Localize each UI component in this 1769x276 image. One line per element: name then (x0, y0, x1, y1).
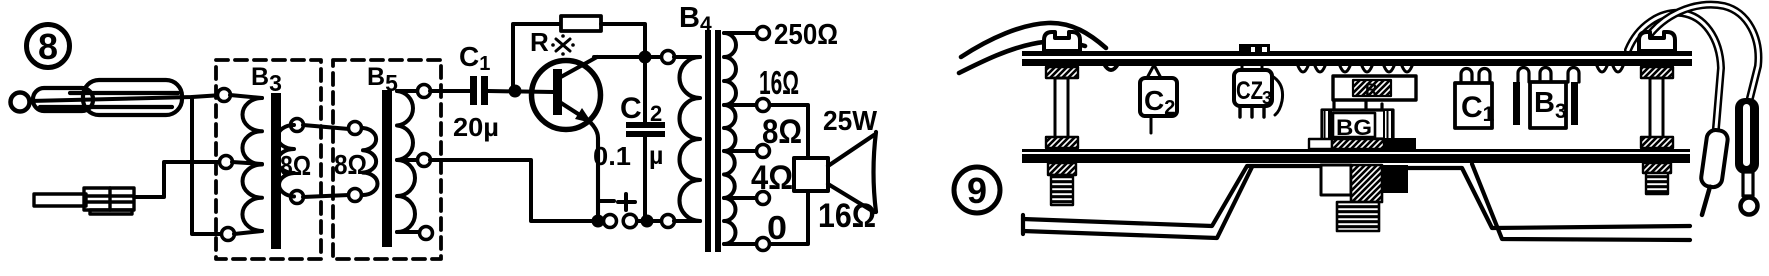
terminal: B3 secondary bottom (291, 191, 304, 204)
speaker horn (828, 135, 874, 212)
terminal: B5 secondary top (418, 85, 431, 98)
capacitor C1 (on board) (1455, 69, 1495, 129)
terminal: B3 primary middle (220, 156, 233, 169)
transformer B3 shield box (dashed) (216, 60, 321, 259)
svg-text:R: R (1365, 80, 1377, 99)
B3 secondary winding (278, 125, 295, 197)
svg-text:C: C (620, 92, 642, 125)
svg-text:8: 8 (38, 26, 58, 67)
transistor emitter lead with arrow (558, 101, 586, 119)
figure number 9 (circled) (954, 167, 1000, 213)
terminal: B3 primary top (218, 89, 231, 102)
wire collector node down to C2 (643, 57, 647, 122)
speaker LS driver (794, 158, 828, 191)
terminal: B5 primary top (349, 122, 362, 135)
transistor collector lead (559, 57, 597, 78)
mounting bracket (bent channel) (1023, 164, 1690, 240)
B5 core (382, 90, 392, 247)
transistor T1 circle (532, 61, 601, 130)
capacitor C2 (on board) (1140, 65, 1177, 133)
B4 primary winding (674, 57, 700, 221)
wire B3 to B5 top link (303, 125, 349, 129)
pin plug (small) (1696, 129, 1729, 217)
resistor R (on board) (1333, 66, 1416, 100)
wire B5 top to C1 (430, 89, 470, 93)
svg-text:8Ω: 8Ω (280, 150, 311, 181)
bottom chassis plate (1022, 149, 1690, 152)
resistor R (561, 16, 601, 31)
wire rail to B4 primary bottom (637, 219, 661, 223)
wire 16 ohm tap to speaker (770, 105, 808, 158)
microphone M (crystal mic) (11, 80, 183, 115)
wire mic to input terminal (30, 95, 222, 101)
svg-text:9: 9 (967, 170, 987, 211)
node emitter-rail junction (592, 215, 605, 228)
terminal: B4 tap 250 ohm (757, 27, 770, 40)
svg-text:µ: µ (649, 142, 663, 170)
plug with ring terminal (large) (1735, 98, 1759, 215)
B3 primary winding (230, 95, 262, 234)
wire B5 middle tap to emitter rail (430, 160, 602, 221)
wire 0 tap to speaker (770, 191, 808, 244)
hookup wire pair top right (to plugs) (1628, 5, 1758, 128)
B4 core (705, 30, 711, 252)
wire mic ground branch down (192, 97, 221, 234)
electrolytic capacitor C3 terminals (604, 215, 617, 228)
svg-text:C1: C1 (459, 41, 490, 75)
terminal: B4 tap 0 (757, 238, 770, 251)
svg-text:3: 3 (1262, 88, 1272, 108)
power transistor BG (1309, 110, 1416, 151)
wire collector to B4 primary top (594, 55, 661, 59)
transistor BG leads (1334, 100, 1382, 110)
svg-text:B3: B3 (251, 63, 282, 96)
transformer B5 shield box (dashed) (333, 60, 441, 259)
terminal: B4 primary top (662, 51, 675, 64)
terminal: B4 tap 4 ohm (757, 192, 770, 205)
svg-text:16Ω: 16Ω (759, 64, 799, 101)
polarity plus (618, 194, 635, 210)
wire R to collector node (601, 24, 645, 55)
figure number 8 (circled) (27, 25, 70, 68)
wire plug to middle terminal (134, 162, 220, 197)
node C2-rail junction (641, 215, 654, 228)
terminal: B5 secondary bottom (420, 227, 433, 240)
terminal: B4 tap 8 ohm (757, 145, 770, 158)
svg-text:8Ω: 8Ω (762, 113, 802, 151)
terminal: B3 primary bottom (222, 228, 235, 241)
terminal: B3 secondary top (291, 119, 304, 132)
svg-text:BG: BG (1336, 115, 1372, 140)
B3 core (271, 93, 281, 249)
node base junction (509, 85, 522, 98)
machine screw right (1639, 32, 1675, 194)
wire base node up and across to resistor R (513, 24, 561, 88)
svg-text:8Ω: 8Ω (334, 149, 367, 180)
asterisk mark (551, 34, 575, 56)
svg-text:250Ω: 250Ω (774, 19, 838, 51)
BG mounting stud below plate (1321, 165, 1408, 231)
terminal: B5 primary bottom (349, 189, 362, 202)
B4 secondary winding (724, 33, 757, 244)
svg-text:16Ω: 16Ω (818, 197, 876, 235)
transistor base bar (553, 69, 562, 115)
svg-text:0: 0 (767, 209, 787, 246)
svg-text:4Ω: 4Ω (751, 159, 793, 197)
wire B3 to B5 bottom link (303, 195, 349, 197)
B5 primary winding (363, 128, 378, 195)
node collector junction (639, 51, 652, 64)
terminal: B5 secondary middle (418, 154, 431, 167)
lead wire left of C2 (1104, 64, 1118, 70)
svg-text:20µ: 20µ (453, 112, 499, 142)
wire C1 to base (488, 91, 553, 92)
capacitor C1 plates (470, 76, 477, 105)
terminal: B4 primary bottom (662, 215, 675, 228)
svg-text:CZ: CZ (1236, 77, 1263, 105)
polarity minus (600, 199, 614, 203)
transistor socket CZ3 (1234, 44, 1283, 117)
top circuit board (1022, 51, 1692, 56)
lead hooks between CZ3 and R (1298, 66, 1325, 72)
machine screw left (1044, 32, 1080, 205)
pickup plug P (34, 188, 134, 214)
capacitor C2 plates (626, 122, 665, 128)
svg-text:R: R (530, 27, 549, 57)
wire C2 down to rail (643, 137, 647, 218)
transformer B3 (on board) (1513, 68, 1579, 129)
B5 secondary winding (397, 91, 420, 232)
svg-text:25W: 25W (823, 105, 878, 136)
terminal: B4 tap 16 ohm (757, 99, 770, 112)
svg-text:0.1: 0.1 (593, 141, 631, 171)
hookup wire pair top left (961, 23, 1106, 57)
wire emitter down to rail (590, 122, 598, 218)
svg-text:2: 2 (650, 101, 662, 126)
lead hooks right of B3 (1597, 66, 1623, 72)
